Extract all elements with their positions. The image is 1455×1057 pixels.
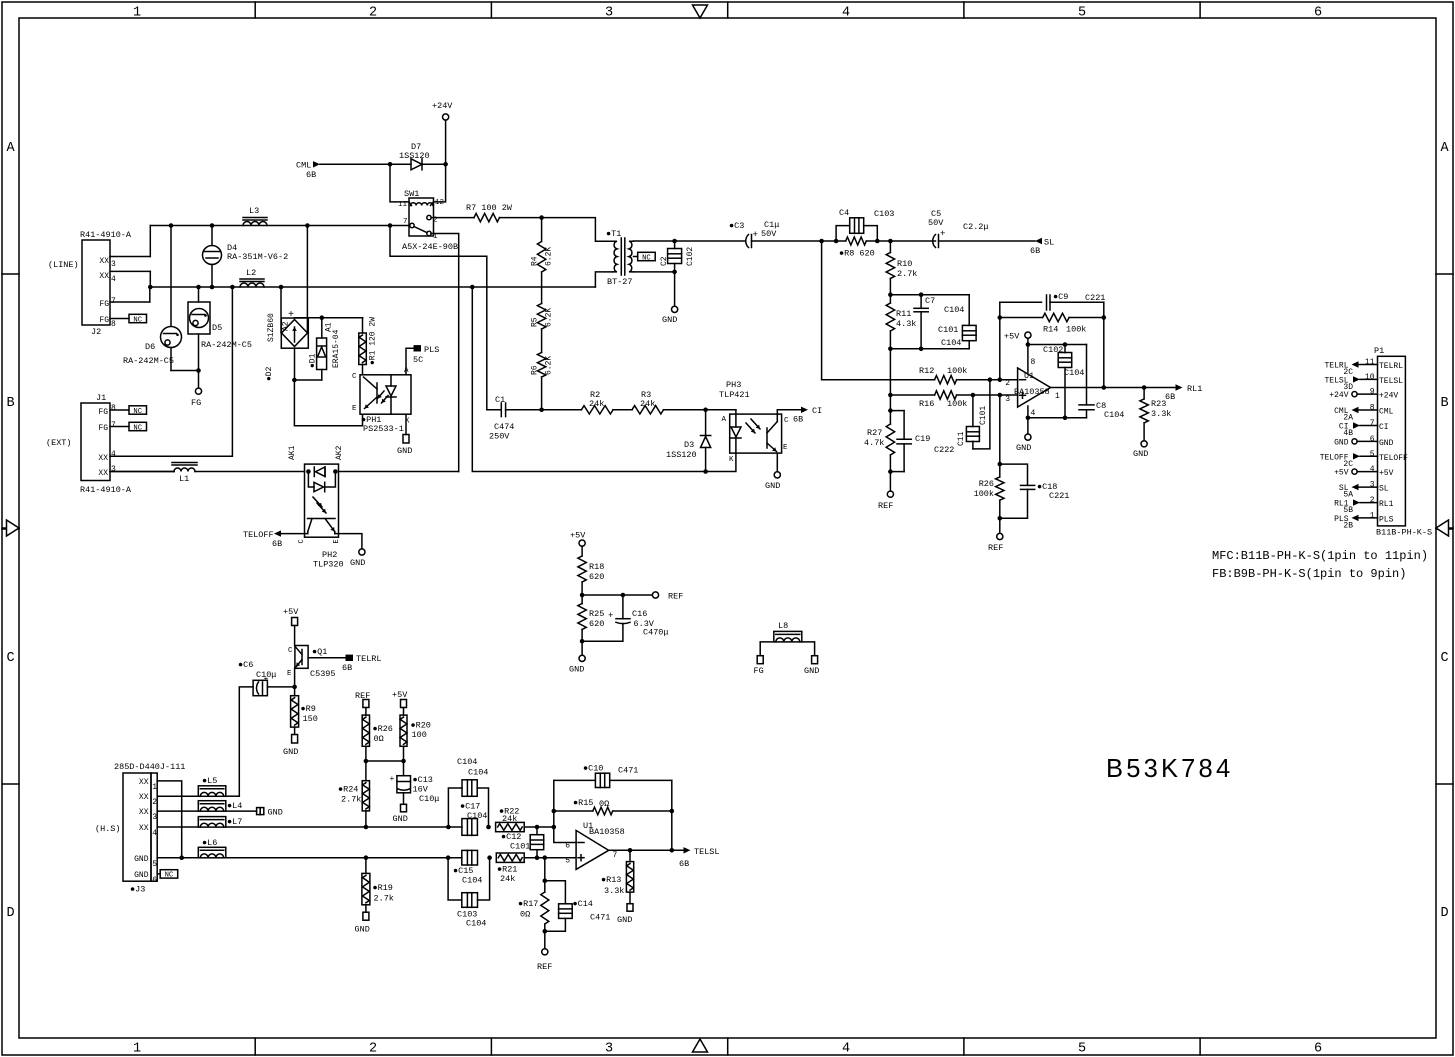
wire rail B down to K rail: [470, 285, 475, 290]
svg-text:7: 7: [111, 421, 116, 430]
capacitor C8 C104: [1086, 345, 1088, 405]
svg-text:XX: XX: [139, 808, 149, 817]
svg-text:L2: L2: [246, 268, 256, 278]
svg-text:6B: 6B: [679, 859, 689, 869]
svg-text:FG: FG: [99, 300, 109, 309]
resistor R26 0ohm: [362, 715, 369, 746]
svg-text:MFC:B11B-PH-K-S(1pin to 11pin): MFC:B11B-PH-K-S(1pin to 11pin): [1212, 549, 1428, 563]
svg-text:2: 2: [369, 1042, 377, 1057]
resistor R21 24k: [496, 853, 524, 862]
resistor R11 4.3k: [886, 303, 894, 331]
wire J2 pin3 to rail A: [149, 226, 151, 257]
svg-text:6B: 6B: [1030, 246, 1040, 256]
svg-text:C: C: [288, 647, 293, 655]
resistor R1 120 2W: [295, 317, 363, 319]
svg-text:4.7k: 4.7k: [864, 438, 884, 448]
svg-text:C10μ: C10μ: [256, 670, 276, 680]
wire R6 to C1 rail: [541, 377, 543, 410]
svg-text:XX: XX: [139, 824, 149, 833]
resistor R22 24k: [496, 822, 525, 831]
svg-text:R16: R16: [919, 399, 934, 409]
svg-text:5B: 5B: [1343, 506, 1353, 515]
frame marker right: [1449, 527, 1454, 529]
svg-text:TELSL: TELSL: [1379, 377, 1403, 386]
frame marker top: [693, 5, 708, 18]
svg-text:FG: FG: [191, 398, 201, 408]
wire Q1 base to TELRL flag: [308, 657, 345, 659]
svg-text:D6: D6: [145, 342, 155, 352]
svg-text:GND: GND: [134, 871, 149, 880]
svg-text:XX: XX: [99, 257, 109, 266]
svg-text:8: 8: [111, 320, 116, 329]
resistor R20 100: [400, 715, 407, 746]
svg-text:C103: C103: [874, 209, 894, 219]
svg-text:R7 100 2W: R7 100 2W: [466, 203, 513, 213]
svg-text:+5V: +5V: [570, 531, 586, 541]
wire R7 to T1 primary top: [542, 218, 613, 242]
capacitor C16 6.3V C470u: [622, 595, 624, 619]
svg-text:3: 3: [1370, 481, 1375, 490]
svg-text:2: 2: [1005, 379, 1010, 388]
svg-text:3: 3: [111, 465, 116, 474]
capacitor C19 C222: [890, 410, 904, 412]
svg-text:RA-242M-C5: RA-242M-C5: [123, 356, 174, 366]
svg-text:+24V: +24V: [1329, 391, 1348, 400]
svg-text:BA10358: BA10358: [589, 827, 625, 837]
svg-text:1SS120: 1SS120: [666, 450, 697, 460]
capacitor C1 C474 250V: [487, 409, 502, 411]
svg-text:GND: GND: [397, 446, 412, 456]
svg-text:R18: R18: [589, 562, 604, 572]
svg-text:C5395: C5395: [310, 669, 336, 679]
capacitor C7: [890, 294, 969, 296]
svg-text:1: 1: [133, 1042, 141, 1057]
svg-text:2.7k: 2.7k: [341, 795, 361, 805]
svg-text:C221: C221: [1049, 491, 1069, 501]
flag CI 6B: [801, 407, 808, 413]
connector J3 (H.S) 285D-D440J-111: [123, 773, 151, 881]
svg-text:●L4: ●L4: [227, 801, 242, 811]
svg-text:C: C: [1440, 651, 1448, 666]
resistor R5 6.2K: [541, 272, 543, 304]
opto-coupler PH2 TLP320: [305, 464, 339, 537]
svg-text:C104: C104: [941, 338, 961, 348]
svg-text:E: E: [352, 405, 357, 413]
svg-text:C: C: [784, 417, 789, 425]
connector J1 (EXT) R41-4910-A: [81, 403, 110, 481]
svg-text:XX: XX: [139, 778, 149, 787]
svg-text:7: 7: [403, 218, 408, 226]
svg-text:TELRL: TELRL: [1379, 362, 1403, 371]
svg-text:C102: C102: [686, 247, 695, 266]
svg-text:BT-27: BT-27: [607, 277, 633, 287]
svg-text:C7: C7: [925, 296, 935, 306]
svg-text:2.7k: 2.7k: [374, 894, 394, 904]
svg-text:XX: XX: [99, 272, 109, 281]
svg-text:●C14: ●C14: [573, 899, 593, 909]
svg-text:4: 4: [1370, 465, 1375, 474]
arrester D6 RA-242M-C5: [170, 226, 172, 327]
feedback capacitor C9 C221: [1000, 301, 1042, 303]
diode D3 1SS120: [705, 410, 707, 436]
svg-text:100k: 100k: [974, 489, 994, 499]
svg-text:1: 1: [152, 783, 157, 792]
svg-text:3: 3: [152, 813, 157, 822]
svg-text:6B: 6B: [306, 170, 316, 180]
svg-text:TELSL: TELSL: [694, 847, 720, 857]
svg-text:4: 4: [152, 829, 157, 838]
svg-text:7: 7: [613, 851, 618, 860]
svg-text:6.2K: 6.2K: [545, 356, 554, 375]
capacitor C101 stack C104: [968, 295, 970, 326]
svg-text:2A: 2A: [1343, 414, 1353, 423]
capacitor C103 loop C104: [448, 858, 462, 900]
flag PLS 5C: [414, 345, 422, 351]
svg-text:R25: R25: [589, 609, 604, 619]
wire PH1 anode to PLS flag: [406, 348, 414, 375]
svg-text:C470μ: C470μ: [643, 628, 669, 638]
svg-text:B: B: [6, 396, 14, 411]
resistor R23 3.3k: [1143, 388, 1145, 399]
wire rail B to D2 left: [279, 285, 284, 290]
svg-text:REF: REF: [988, 543, 1003, 553]
svg-text:100: 100: [412, 730, 427, 740]
svg-text:GND: GND: [1133, 449, 1148, 459]
resistor R18 620: [578, 556, 586, 582]
svg-text:CML: CML: [1379, 408, 1394, 417]
svg-text:L1: L1: [179, 474, 189, 484]
capacitor C18 C221: [1000, 464, 1028, 485]
capacitor C4 C103: [836, 226, 850, 241]
svg-text:B: B: [1440, 396, 1448, 411]
svg-text:RL1: RL1: [1187, 384, 1202, 394]
svg-text:●C17: ●C17: [460, 802, 480, 812]
resistor R2 24k: [542, 409, 582, 411]
svg-text:●D2: ●D2: [265, 366, 274, 381]
svg-text:NC: NC: [642, 254, 651, 262]
svg-text:3: 3: [605, 6, 613, 21]
svg-text:100k: 100k: [947, 366, 967, 376]
svg-text:R41-4910-A: R41-4910-A: [80, 485, 132, 495]
svg-text:C471: C471: [590, 913, 610, 923]
svg-text:5: 5: [565, 857, 570, 866]
frame marker left: [2, 527, 7, 529]
inductor L4: [198, 801, 226, 812]
svg-text:+5V: +5V: [392, 690, 408, 700]
wire T1 secondary bottom: [634, 271, 675, 273]
svg-text:100k: 100k: [1066, 325, 1086, 335]
terminal REF under R26: [999, 518, 1001, 533]
svg-text:●L5: ●L5: [202, 776, 217, 786]
svg-text:24k: 24k: [589, 399, 604, 409]
svg-text:50V: 50V: [761, 229, 777, 239]
svg-text:C1: C1: [495, 395, 505, 405]
svg-text:(EXT): (EXT): [46, 438, 72, 448]
svg-text:GND: GND: [134, 855, 149, 864]
svg-text:S1ZB60: S1ZB60: [267, 313, 276, 342]
resistor R24 2.7k: [365, 761, 367, 781]
svg-text:24k: 24k: [500, 874, 515, 884]
svg-text:TLP421: TLP421: [719, 390, 750, 400]
wire Q1 emitter node: [294, 668, 296, 695]
svg-text:●R8 620: ●R8 620: [839, 249, 875, 259]
svg-text:R26: R26: [979, 479, 994, 489]
resistor R17 0ohm with C14: [544, 858, 546, 892]
resistor R26 100k with C18: [999, 395, 1001, 477]
svg-text:RA-242M-C5: RA-242M-C5: [201, 340, 252, 350]
wire rail A branch to C1: [390, 226, 487, 410]
wire D2 plus output: [295, 317, 363, 319]
svg-text:6: 6: [1370, 435, 1375, 444]
wire rail A (tip line): [150, 225, 410, 227]
capacitor C2 C102: [674, 241, 676, 249]
flag RL1 6B: [1176, 384, 1183, 390]
svg-text:R27: R27: [867, 428, 882, 438]
resistor R16 100k: [890, 394, 934, 396]
svg-text:●R1 120 2W: ●R1 120 2W: [369, 317, 378, 365]
svg-text:●R19: ●R19: [373, 883, 393, 893]
wire T1 secondary tap NC: [634, 256, 638, 258]
svg-text:NC: NC: [133, 316, 142, 324]
svg-text:C11: C11: [957, 431, 966, 446]
svg-text:FG: FG: [98, 424, 108, 433]
svg-text:4: 4: [111, 450, 116, 459]
svg-text:C221: C221: [1085, 293, 1105, 303]
svg-text:285D-D440J-111: 285D-D440J-111: [114, 762, 185, 772]
svg-text:C104: C104: [457, 757, 477, 767]
svg-text:GND: GND: [662, 315, 677, 325]
svg-text:2.7k: 2.7k: [897, 269, 917, 279]
svg-text:0Ω: 0Ω: [520, 910, 530, 920]
svg-text:C104: C104: [1064, 368, 1084, 378]
svg-text:J1: J1: [96, 393, 106, 403]
svg-text:2: 2: [369, 6, 377, 21]
svg-text:620: 620: [589, 619, 604, 629]
wire SW1 pin1 to EXT rail: [431, 234, 459, 472]
svg-text:SW1: SW1: [404, 189, 419, 199]
svg-text:3.3k: 3.3k: [604, 886, 624, 896]
svg-text:A2: A2: [282, 321, 291, 331]
U1 pin 4 ground rail: [1028, 417, 1087, 419]
svg-text:C2: C2: [660, 256, 669, 266]
feedback resistor R15 0ohm: [553, 780, 555, 827]
svg-text:●R26: ●R26: [373, 724, 393, 734]
svg-text:K: K: [729, 456, 734, 464]
svg-text:2C: 2C: [1343, 460, 1353, 469]
svg-text:ERA15-04: ERA15-04: [332, 329, 341, 368]
resistor R3 24k: [613, 409, 632, 411]
wire J3 pin4 line to amp: [226, 826, 462, 828]
svg-text:P1: P1: [1374, 346, 1384, 356]
svg-text:5: 5: [1370, 450, 1375, 459]
svg-text:REF: REF: [668, 592, 683, 602]
svg-text:PS2533-1: PS2533-1: [363, 424, 404, 434]
svg-text:B11B-PH-K-S: B11B-PH-K-S: [1376, 528, 1432, 538]
wire J3 pin5 line to amp: [226, 857, 462, 859]
svg-text:C102: C102: [1043, 345, 1063, 355]
svg-text:6B: 6B: [272, 539, 282, 549]
svg-text:●R20: ●R20: [411, 721, 431, 731]
svg-text:C471: C471: [618, 766, 638, 776]
wire rail A to D2 right: [305, 223, 310, 228]
svg-text:11: 11: [1365, 358, 1375, 367]
svg-text:RL1: RL1: [1379, 500, 1394, 509]
svg-text:4: 4: [111, 275, 116, 284]
svg-text:D5: D5: [212, 323, 222, 333]
wire C6 to J3 pin2 line: [239, 687, 253, 796]
svg-text:(LINE): (LINE): [48, 260, 79, 270]
svg-text:620: 620: [589, 572, 604, 582]
wire PH2 collector to TELOFF: [281, 533, 308, 535]
svg-text:7: 7: [1370, 419, 1375, 428]
svg-text:D3: D3: [684, 440, 694, 450]
svg-text:GND: GND: [283, 747, 298, 757]
svg-text:+: +: [940, 229, 945, 239]
svg-text:24k: 24k: [502, 814, 517, 824]
svg-text:C: C: [6, 651, 14, 666]
svg-text:●C13: ●C13: [413, 775, 433, 785]
svg-text:C: C: [352, 373, 357, 381]
resistor R7 100 2W: [431, 217, 474, 219]
svg-text:R10: R10: [897, 259, 912, 269]
svg-text:C2.2μ: C2.2μ: [963, 222, 989, 232]
svg-text:●R13: ●R13: [601, 875, 621, 885]
wire SW1 pin12: [434, 164, 446, 202]
svg-text:TELOFF: TELOFF: [243, 530, 274, 540]
inductor L8: [774, 631, 802, 642]
svg-text:●C6: ●C6: [238, 660, 253, 670]
svg-text:●R24: ●R24: [338, 785, 358, 795]
svg-text:●L6: ●L6: [202, 838, 217, 848]
op-amp U1 BA10358 (B): [576, 830, 609, 869]
resistor R25 620: [578, 604, 586, 630]
svg-text:C10μ: C10μ: [419, 794, 439, 804]
svg-text:●L7: ●L7: [227, 817, 242, 827]
svg-text:C104: C104: [462, 876, 482, 886]
svg-text:PH2: PH2: [322, 550, 337, 560]
svg-text:5A: 5A: [1343, 491, 1353, 500]
svg-text:SL: SL: [1044, 238, 1054, 248]
wire SL net down to R16/R27: [889, 349, 891, 411]
svg-text:●C10: ●C10: [583, 764, 603, 774]
wire SW1 pin11: [390, 164, 409, 202]
svg-text:1: 1: [133, 6, 141, 21]
U1 pin 8 +5V: [1027, 345, 1029, 373]
svg-text:6: 6: [1314, 6, 1322, 21]
svg-text:J2: J2: [91, 327, 101, 337]
svg-text:(H.S): (H.S): [95, 824, 121, 834]
wire PH3 collector to CI flag: [777, 410, 801, 414]
svg-text:CI: CI: [1379, 423, 1389, 432]
svg-text:3.3k: 3.3k: [1151, 409, 1171, 419]
svg-text:5: 5: [1078, 6, 1086, 21]
svg-text:FB:B9B-PH-K-S(1pin to 9pin): FB:B9B-PH-K-S(1pin to 9pin): [1212, 567, 1406, 581]
svg-text:9: 9: [1370, 388, 1375, 397]
wire PH3 emitter to ground: [776, 453, 778, 472]
resistor R27 4.7k with C19: [889, 411, 891, 424]
svg-text:C104: C104: [468, 768, 488, 778]
arrester D5 RA-242M-C5: [198, 287, 200, 302]
svg-text:+: +: [288, 310, 294, 321]
svg-text:C104: C104: [467, 811, 487, 821]
wire C5 to SL flag: [939, 240, 1036, 242]
NC box on J2 pin 8: [129, 314, 147, 322]
svg-text:3: 3: [1005, 395, 1010, 404]
terminal FG: [195, 388, 201, 394]
svg-text:100k: 100k: [947, 399, 967, 409]
inductor L1: [110, 471, 174, 473]
svg-text:GND: GND: [569, 665, 584, 675]
svg-text:C19: C19: [915, 434, 930, 444]
svg-text:●R15: ●R15: [573, 798, 593, 808]
svg-text:150: 150: [303, 714, 318, 724]
svg-text:C104: C104: [944, 305, 964, 315]
wire rail B (ring line): [150, 286, 595, 288]
resistor R8 620 with C4 C103: [822, 240, 846, 242]
resistor R10 2.7k: [889, 241, 891, 253]
svg-text:XX: XX: [98, 454, 108, 463]
svg-text:0Ω: 0Ω: [599, 799, 609, 809]
svg-text:R41-4910-A: R41-4910-A: [80, 230, 132, 240]
terminal REF under R27: [889, 472, 891, 491]
svg-text:NC: NC: [133, 424, 142, 432]
svg-text:XX: XX: [139, 793, 149, 802]
svg-text:RA-351M-V6-2: RA-351M-V6-2: [227, 252, 288, 262]
svg-text:B53K784: B53K784: [1106, 755, 1233, 783]
svg-text:0Ω: 0Ω: [374, 734, 384, 744]
capacitor C12 C101: [536, 827, 538, 835]
wire REF node: [582, 594, 652, 596]
svg-text:+5V: +5V: [1379, 469, 1394, 478]
svg-text:C104: C104: [466, 919, 486, 929]
capacitor C15 on line C104: [462, 850, 478, 865]
svg-text:●J3: ●J3: [130, 885, 145, 895]
svg-text:1: 1: [1370, 511, 1375, 520]
svg-text:+: +: [390, 775, 395, 784]
bridge rectifier D2 S1ZB60: [281, 318, 308, 348]
opto-coupler PH1 PS2533-1: [360, 375, 411, 414]
svg-text:R12: R12: [919, 366, 934, 376]
svg-text:6B: 6B: [342, 663, 352, 673]
wire U1b output to TELSL: [609, 849, 684, 851]
resistor R4 6.2K: [541, 218, 543, 242]
svg-text:L8: L8: [778, 621, 788, 631]
ground under T1: [672, 306, 678, 312]
wire +5V rail to C8: [1028, 344, 1087, 346]
svg-text:250V: 250V: [489, 432, 510, 442]
svg-text:+5V: +5V: [1004, 332, 1020, 342]
svg-text:GND: GND: [1334, 438, 1349, 447]
svg-text:●Q1: ●Q1: [312, 647, 327, 657]
svg-text:R6: R6: [531, 365, 540, 375]
svg-text:PLS: PLS: [424, 345, 439, 355]
terminal REF under R17: [542, 949, 548, 955]
svg-text:C222: C222: [934, 445, 954, 455]
svg-text:1SS120: 1SS120: [399, 151, 430, 161]
junction rail B start: [148, 285, 153, 290]
svg-text:+24V: +24V: [1379, 392, 1398, 401]
wire J2 pin4 jog: [149, 271, 151, 287]
svg-text:TLP320: TLP320: [313, 560, 344, 570]
svg-text:R4: R4: [531, 256, 540, 266]
svg-text:+5V: +5V: [283, 607, 299, 617]
transistor Q1 C5395: [295, 646, 308, 669]
wire T1 secondary top to SL rail: [634, 240, 746, 242]
resistor R12 100k: [822, 241, 935, 380]
wire D2 minus output: [295, 348, 322, 380]
svg-text:GND: GND: [1379, 439, 1394, 448]
svg-text:●C3: ●C3: [729, 221, 744, 231]
